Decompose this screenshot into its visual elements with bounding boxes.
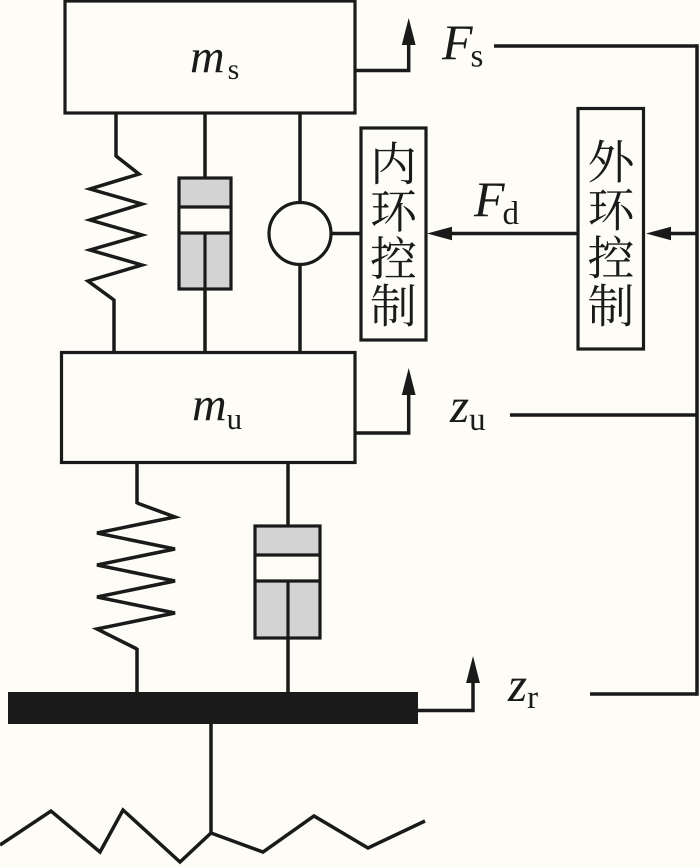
wire F_s to right bus	[494, 44, 697, 48]
wire m_u to lower damper	[286, 462, 290, 528]
wire z_r to right bus	[590, 692, 697, 696]
wire upper spring to m_u	[112, 299, 116, 353]
text 制	[372, 284, 415, 327]
wire z_u to right bus	[510, 413, 697, 417]
road stem	[209, 724, 213, 834]
road profile zigzag	[0, 810, 425, 862]
right bus vertical wire	[695, 44, 699, 696]
road ground bar	[8, 692, 418, 724]
text 环	[372, 190, 415, 232]
inner loop control box 内环控制	[361, 128, 426, 340]
upper spring ks	[88, 156, 142, 300]
wire m_s to actuator	[298, 113, 302, 204]
wire lower spring to road	[135, 648, 139, 694]
wire upper damper to m_u	[203, 289, 207, 353]
wire m_u to lower spring	[135, 462, 139, 504]
z_r arrow	[417, 682, 473, 711]
text 制	[589, 284, 632, 327]
text 外	[589, 140, 632, 183]
text 环	[589, 189, 632, 231]
wire m_s to upper damper	[203, 113, 207, 180]
F_d arrow	[450, 232, 578, 236]
lower damper body	[255, 526, 320, 638]
F_s arrow	[355, 42, 409, 71]
arrow into outer box	[668, 232, 697, 236]
unsprung mass m_u box	[62, 353, 356, 463]
outer loop control box 外环控制	[578, 109, 644, 350]
actuator circle	[269, 203, 331, 265]
wire lower damper to road	[286, 638, 290, 694]
wire actuator to m_u	[298, 264, 302, 353]
text 控	[371, 236, 415, 279]
sprung mass m_s box	[65, 1, 355, 113]
upper damper cs body	[179, 178, 231, 289]
z_u arrow	[355, 392, 409, 433]
upper damper piston rod	[203, 233, 206, 289]
wire m_s to upper spring	[114, 113, 118, 157]
wire actuator to inner box	[331, 232, 361, 236]
text 内	[375, 141, 414, 184]
lower damper piston rod	[286, 581, 289, 638]
text 控	[589, 235, 633, 278]
lower spring kt	[97, 503, 175, 649]
